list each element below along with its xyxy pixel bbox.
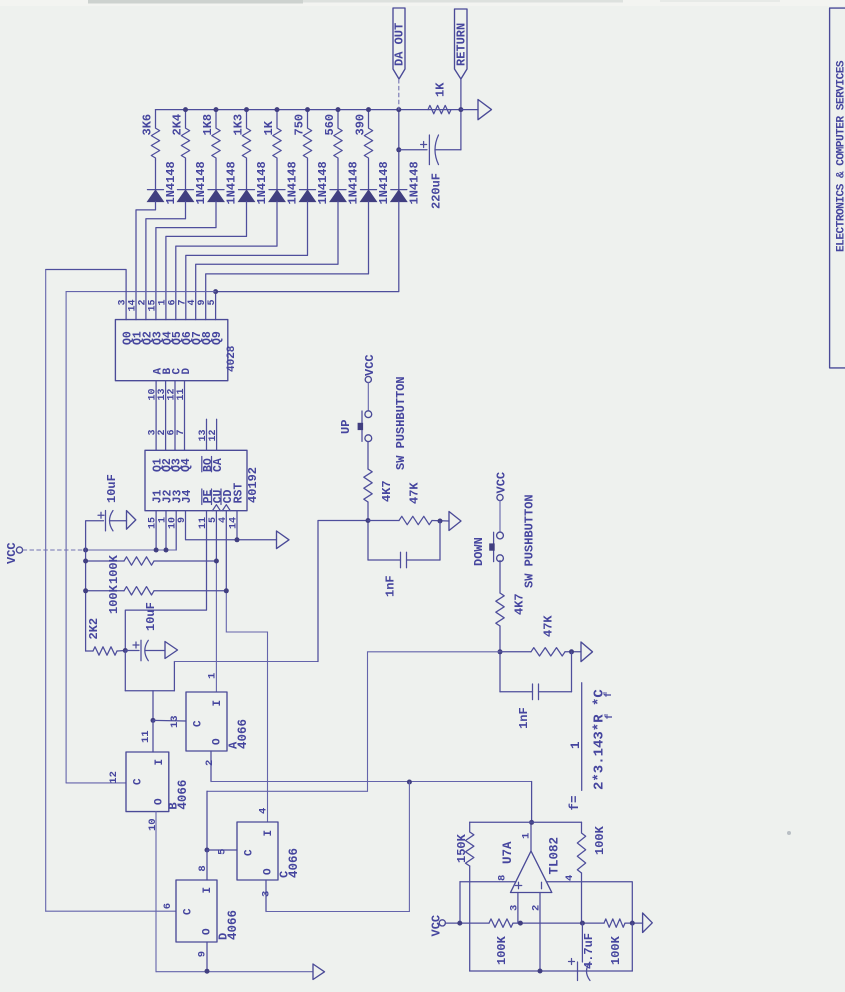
overline CU bbox=[211, 489, 213, 505]
svg-text:I: I bbox=[154, 759, 166, 766]
wire: VCC rail dotted bbox=[23, 549, 86, 551]
wire: DA OUT flag stem bbox=[398, 79, 400, 110]
wire: VCC rail bbox=[445, 922, 489, 924]
wire: to 4066 B pin 11 / A ctl bbox=[152, 691, 154, 721]
wire: 2K2 to node bbox=[117, 650, 125, 653]
svg-text:VCC: VCC bbox=[495, 472, 509, 494]
svg-text:DOWN: DOWN bbox=[472, 537, 486, 566]
wire: pin 4 supply to ground rail bbox=[546, 882, 632, 923]
svg-text:1N4148: 1N4148 bbox=[194, 161, 208, 204]
svg-text:1nF: 1nF bbox=[384, 575, 398, 597]
svg-text:40192: 40192 bbox=[246, 467, 260, 503]
ground (10uF) bbox=[127, 511, 136, 530]
junction bbox=[336, 107, 341, 112]
svg-text:100K: 100K bbox=[495, 935, 509, 965]
svg-text:C: C bbox=[133, 778, 145, 785]
analog switch 4066 D bbox=[176, 880, 217, 942]
svg-text:U7A: U7A bbox=[501, 841, 515, 864]
clock chevron CU bbox=[212, 505, 220, 511]
pushbutton SW UP bbox=[365, 411, 372, 418]
wire bbox=[500, 651, 531, 653]
wire: CD down to 4066 C input bbox=[226, 591, 267, 822]
wire: 4028 pin 3 (Q0) to left bus bbox=[46, 270, 126, 320]
wire: 4028 C to 40192 bbox=[174, 381, 176, 451]
wire: rail bbox=[513, 922, 604, 924]
wire: J3 to VCC rail bbox=[175, 511, 177, 550]
svg-text:1N4148: 1N4148 bbox=[316, 161, 330, 204]
wire: 4028 D to 40192 bbox=[184, 381, 186, 451]
svg-text:1: 1 bbox=[207, 673, 219, 679]
svg-text:1N4148: 1N4148 bbox=[255, 161, 269, 204]
wire: 1K to diode bbox=[276, 160, 278, 190]
svg-text:I: I bbox=[212, 700, 224, 707]
svg-text:I: I bbox=[202, 887, 214, 894]
svg-text:8: 8 bbox=[197, 865, 209, 871]
junction: -in on bottom rail bbox=[538, 969, 543, 974]
diode 1N4148 (column 8) bbox=[361, 189, 377, 191]
svg-text:C: C bbox=[244, 849, 256, 856]
junction bbox=[214, 107, 219, 112]
wire: diode 7 to 4028 pin 4 bbox=[196, 202, 338, 320]
capacitor 1nF (DOWN) bbox=[500, 691, 533, 693]
wire: diode 2 to 4028 pin 2 bbox=[146, 202, 186, 320]
wire: 4028 A to 40192 bbox=[155, 381, 157, 451]
terminal flag RETURN bbox=[455, 9, 468, 79]
svg-text:O: O bbox=[212, 738, 224, 745]
svg-text:DA OUT: DA OUT bbox=[393, 23, 407, 66]
svg-text:SW PUSHBUTTON: SW PUSHBUTTON bbox=[394, 376, 408, 470]
resistor 2K4 bbox=[181, 110, 189, 160]
diode 1N4148 (column 1) bbox=[148, 189, 164, 191]
svg-text:10uF: 10uF bbox=[105, 474, 119, 503]
svg-text:f: f bbox=[603, 691, 615, 697]
wire: 100K to CU bbox=[154, 560, 216, 562]
resistor 390 bbox=[364, 110, 372, 160]
wire: 1nF up to ground net bbox=[439, 521, 441, 560]
wire: 390 to diode bbox=[368, 160, 370, 190]
wire: 3K6 to diode bbox=[155, 160, 157, 190]
junction bbox=[305, 107, 310, 112]
wire: jog up bbox=[173, 662, 175, 691]
junction: A out / C out bbox=[407, 780, 412, 785]
title block frame bbox=[830, 8, 845, 368]
svg-text:4028: 4028 bbox=[226, 345, 238, 372]
junction: +in node bbox=[518, 921, 523, 926]
diode 1N4148 (column 2) bbox=[178, 189, 194, 191]
svg-text:750: 750 bbox=[293, 114, 307, 136]
wire: node to jog bbox=[125, 690, 174, 692]
svg-text:Q9: Q9 bbox=[211, 331, 224, 345]
junction bbox=[438, 519, 443, 524]
wire: CU upper bbox=[215, 511, 217, 561]
wire: 10uF to ground bbox=[146, 650, 166, 652]
wire: DA node to 220uF bbox=[399, 149, 427, 151]
wire: 4K7 down through junction bbox=[367, 502, 369, 560]
wire: D output pin 9 bbox=[206, 942, 208, 971]
pushbutton SW DOWN bbox=[497, 532, 504, 539]
junction bbox=[630, 921, 635, 926]
wire: right side down bbox=[631, 923, 633, 971]
svg-text:SW PUSHBUTTON: SW PUSHBUTTON bbox=[523, 494, 537, 588]
wire: VCC to switch DOWN bbox=[499, 501, 501, 532]
junction: CU net bbox=[214, 559, 219, 564]
polarity + of 10uF bbox=[98, 512, 104, 518]
wire: left bus to 4066 D control pin 6 bbox=[46, 910, 176, 912]
wire: DA diode to 4028 pin 5 bbox=[216, 202, 399, 320]
wire: output node rail bbox=[470, 821, 582, 823]
svg-text:100K: 100K bbox=[609, 935, 623, 965]
junction bbox=[83, 588, 88, 593]
wire: 750 to diode bbox=[307, 160, 309, 190]
resistor 100K (feedback) bbox=[577, 822, 585, 873]
wire: PE to RC node bbox=[125, 511, 206, 651]
svg-text:1N4148: 1N4148 bbox=[225, 161, 239, 204]
wire: DAC summing bus bbox=[156, 109, 461, 111]
svg-text:1K: 1K bbox=[434, 82, 448, 97]
junction bbox=[366, 107, 371, 112]
svg-text:D: D bbox=[181, 368, 193, 375]
diode 1N4148 (column 4) bbox=[239, 189, 255, 191]
junction bbox=[83, 559, 88, 564]
resistor 1K bbox=[428, 105, 451, 113]
wire: op-amp output pin 1 bbox=[530, 822, 532, 851]
wire: VCC rail bbox=[86, 549, 177, 551]
junction: J4-RST bbox=[235, 537, 240, 542]
wire: left bus to 4066 B control pin 12 bbox=[66, 782, 126, 784]
wire: VCC to 10uF bbox=[86, 521, 104, 550]
resistor 1K bbox=[273, 110, 281, 160]
resistor 150K bbox=[466, 822, 474, 866]
capacitor 1nF (UP) bbox=[368, 559, 401, 561]
resistor 560 bbox=[334, 110, 342, 160]
wire: DOWN signal to 4066 D/C bbox=[207, 652, 500, 792]
svg-text:220uF: 220uF bbox=[429, 173, 443, 209]
svg-text:VCC: VCC bbox=[363, 354, 377, 376]
svg-text:4066: 4066 bbox=[236, 719, 250, 749]
wire: rail to ground bbox=[625, 922, 643, 924]
svg-text:1N4148: 1N4148 bbox=[377, 161, 391, 204]
junction: 220uF node bbox=[396, 147, 401, 152]
svg-text:4K7: 4K7 bbox=[513, 593, 527, 615]
resistor 100K (CU pull-up) bbox=[124, 557, 154, 565]
wire: C out right bbox=[266, 911, 409, 913]
wire: 100K to CD bbox=[154, 590, 226, 592]
svg-text:4066: 4066 bbox=[226, 910, 240, 940]
wire: switch to 4K7 bbox=[367, 442, 369, 469]
wire: BO stub pin 13 bbox=[206, 419, 208, 450]
op-amp + input mark bbox=[515, 882, 521, 888]
svg-text:9: 9 bbox=[177, 517, 188, 523]
wire: to 4066 A control pin 13 bbox=[153, 719, 186, 722]
wire: B output pin 10 down bbox=[155, 812, 157, 972]
wire: diode 4 to 4028 pin 1 bbox=[166, 202, 247, 320]
resistor 2K2 bbox=[93, 647, 117, 655]
diode 1N4148 (column 5) bbox=[269, 189, 285, 191]
wire: down to op-amp output node bbox=[531, 782, 533, 823]
wire: VCC to switch UP bbox=[367, 383, 369, 411]
polarity + of 10uF bbox=[133, 642, 139, 648]
capacitor 10uF (PE timing) bbox=[140, 640, 142, 660]
wire: A output pin 2 bbox=[210, 751, 212, 782]
ground (output return) bbox=[478, 100, 492, 120]
wire: to 4066 D input pin 8 bbox=[206, 850, 208, 880]
svg-text:150K: 150K bbox=[455, 833, 469, 863]
resistor 47K (UP) bbox=[399, 516, 432, 524]
wire: diode 6 to 4028 pin 7 bbox=[186, 202, 308, 320]
ground (DOWN) bbox=[581, 642, 593, 662]
wire: Q9 to left bus bbox=[66, 291, 216, 293]
junction bbox=[275, 107, 280, 112]
wire: CO stub pin 12 bbox=[216, 419, 218, 450]
junction bbox=[244, 107, 249, 112]
polarity + of 220uF bbox=[421, 142, 427, 148]
svg-text:2K4: 2K4 bbox=[171, 114, 185, 136]
wire: C output pin 3 bbox=[265, 880, 267, 912]
wire: 560 to diode bbox=[337, 160, 339, 190]
resistor 4K7 (DOWN) bbox=[496, 593, 504, 626]
resistor 3K6 bbox=[151, 110, 159, 160]
op-amp - input mark bbox=[541, 882, 543, 888]
svg-text:8: 8 bbox=[497, 875, 509, 881]
wire: diode 8 to 4028 pin 9 bbox=[206, 202, 369, 320]
svg-text:UP: UP bbox=[339, 420, 353, 434]
IC 4028 BCD-to-decimal decoder body bbox=[115, 320, 227, 381]
svg-text:100K: 100K bbox=[107, 584, 121, 614]
svg-text:1N4148: 1N4148 bbox=[164, 161, 178, 204]
ground (J4/RST) bbox=[277, 531, 290, 549]
diode 1N4148 (DA OUT column) bbox=[391, 189, 407, 191]
svg-text:ELECTRONICS & COMPUTER SERVICE: ELECTRONICS & COMPUTER SERVICES bbox=[836, 60, 845, 252]
capacitor 4.7uF bbox=[577, 962, 579, 981]
svg-text:1: 1 bbox=[569, 741, 583, 749]
clock chevron CD bbox=[222, 505, 230, 511]
svg-text:1N4148: 1N4148 bbox=[286, 161, 300, 204]
wire: UP signal line bbox=[174, 661, 318, 663]
junction: CD net bbox=[224, 588, 229, 593]
svg-text:4K7: 4K7 bbox=[380, 480, 394, 502]
svg-text:4: 4 bbox=[258, 808, 270, 814]
resistor 100K (bias upper) bbox=[489, 919, 513, 927]
wire: 2K4 to diode bbox=[185, 160, 187, 190]
wire: 1nF up to ground net bbox=[571, 652, 573, 692]
svg-text:O: O bbox=[202, 928, 214, 935]
IC 40192 up/down counter body bbox=[145, 450, 247, 510]
junction bbox=[457, 921, 462, 926]
terminal VCC (left) bbox=[16, 547, 22, 553]
svg-text:6: 6 bbox=[162, 903, 174, 909]
wire: bottom rail to ground bbox=[156, 971, 313, 973]
wire: to 100K bbox=[86, 560, 124, 562]
svg-text:VCC: VCC bbox=[429, 915, 443, 937]
polarity + of 4.7uF bbox=[569, 959, 575, 965]
junction: Q9 net bbox=[213, 289, 218, 294]
wire: left bus (Q0) down bbox=[45, 270, 47, 912]
resistor 750 bbox=[303, 110, 311, 160]
wire: A out to op-amp node bbox=[211, 781, 532, 783]
svg-text:11: 11 bbox=[176, 389, 187, 401]
wire: UP debounce node to signal line bbox=[318, 521, 368, 662]
junction: RETURN node bbox=[458, 107, 463, 112]
svg-text:O: O bbox=[153, 798, 165, 805]
svg-text:12: 12 bbox=[108, 771, 120, 784]
svg-text:f: f bbox=[604, 713, 616, 719]
wire: node to 10uF bbox=[125, 650, 139, 652]
fraction bar bbox=[581, 683, 583, 791]
svg-text:13: 13 bbox=[169, 715, 181, 728]
wire: 100K to VCC rail node bbox=[581, 873, 583, 923]
svg-text:9: 9 bbox=[197, 951, 209, 957]
svg-text:10uF: 10uF bbox=[144, 602, 158, 631]
op-amp U7A TL082 bbox=[511, 851, 552, 893]
svg-text:12: 12 bbox=[208, 430, 219, 442]
svg-text:390: 390 bbox=[354, 114, 368, 136]
junction: D out on bottom rail bbox=[205, 969, 210, 974]
wire: 4028 B to 40192 bbox=[165, 381, 167, 451]
wire: to 4066 C control pin 5 bbox=[207, 849, 237, 851]
junction J2 bbox=[164, 548, 169, 553]
wire: CD upper bbox=[225, 511, 227, 591]
svg-text:14: 14 bbox=[229, 517, 240, 529]
wire: to 4066 B input pin 11 bbox=[152, 720, 154, 752]
junction: B11-A13 bbox=[151, 718, 156, 723]
terminal VCC (UP) bbox=[365, 376, 371, 382]
wire: to 2K2 bbox=[86, 650, 93, 652]
diode 1N4148 (column 7) bbox=[330, 189, 346, 191]
wire: C out up to A out junction bbox=[408, 782, 410, 912]
junction: UP debounce node bbox=[366, 518, 371, 523]
terminal flag DA OUT bbox=[393, 8, 405, 79]
wire: pin 3 (+) input bbox=[517, 893, 519, 924]
analog switch 4066 B bbox=[126, 752, 169, 812]
resistor 1K3 bbox=[242, 110, 250, 160]
junction: PE RC node bbox=[123, 648, 128, 653]
terminal VCC (op-amp) bbox=[439, 920, 445, 926]
wire: diode 1 to 4028 pin 14 bbox=[136, 202, 156, 320]
wire: to ground arrow bbox=[461, 109, 478, 111]
svg-text:1N4148: 1N4148 bbox=[407, 161, 421, 204]
svg-text:2*3.143*R *C: 2*3.143*R *C bbox=[592, 689, 608, 790]
junction: DOWN debounce node bbox=[498, 649, 503, 654]
junction: D8-C5 bbox=[205, 848, 210, 853]
svg-text:2: 2 bbox=[531, 905, 543, 911]
svg-text:47K: 47K bbox=[408, 482, 422, 504]
overline BO bbox=[201, 457, 203, 472]
terminal VCC (DOWN) bbox=[497, 494, 503, 500]
svg-text:2: 2 bbox=[204, 760, 216, 766]
svg-text:RST: RST bbox=[233, 483, 246, 504]
wire: CU down to 4066 A input bbox=[215, 561, 217, 692]
svg-text:2K2: 2K2 bbox=[87, 618, 101, 640]
svg-text:O: O bbox=[263, 868, 275, 875]
wire: 1K3 to diode bbox=[246, 160, 248, 190]
svg-text:J4: J4 bbox=[181, 489, 194, 503]
svg-text:4: 4 bbox=[564, 875, 576, 881]
svg-text:3: 3 bbox=[261, 891, 273, 897]
capacitor 10uF (VCC decoupling) bbox=[105, 511, 107, 531]
wire: pin 2 (-) input down bbox=[539, 893, 541, 972]
wire: diode 3 to 4028 pin 15 bbox=[156, 202, 216, 320]
svg-text:10: 10 bbox=[147, 818, 159, 831]
junction: op-amp output node bbox=[529, 820, 534, 825]
resistor 100K (bias lower) bbox=[604, 919, 625, 927]
wire: feedback node to 4.7uF bbox=[581, 923, 583, 962]
svg-text:5: 5 bbox=[216, 849, 228, 855]
svg-text:1N4148: 1N4148 bbox=[347, 161, 361, 204]
wire: RST pin bbox=[236, 511, 238, 540]
wire: to 100K bbox=[86, 590, 124, 592]
diode 1N4148 (column 6) bbox=[300, 189, 316, 191]
wire: 47K to ground bbox=[432, 520, 449, 523]
svg-text:RETURN: RETURN bbox=[455, 23, 469, 66]
diode 1N4148 (column 3) bbox=[208, 189, 224, 191]
svg-text:C: C bbox=[183, 908, 195, 915]
junction bbox=[569, 649, 574, 654]
svg-text:4.7uF: 4.7uF bbox=[582, 933, 596, 969]
scan speck (noise) bbox=[787, 831, 791, 835]
ground (UP) bbox=[449, 512, 461, 531]
wire: node down bbox=[124, 651, 126, 691]
svg-text:1K: 1K bbox=[262, 120, 276, 135]
svg-text:100K: 100K bbox=[107, 554, 121, 584]
wire: DA OUT column bbox=[398, 110, 400, 190]
svg-text:47K: 47K bbox=[542, 615, 556, 637]
ground (10uF PE) bbox=[165, 642, 178, 659]
svg-text:I: I bbox=[263, 830, 275, 837]
junction: DA OUT node on bus bbox=[396, 107, 401, 112]
svg-text:CA: CA bbox=[212, 458, 225, 472]
wire: J2 to VCC rail bbox=[165, 511, 167, 550]
wire: switch to 4K7 bbox=[499, 561, 501, 594]
resistor 1K8 bbox=[212, 110, 220, 160]
ground (op-amp rail) bbox=[643, 913, 653, 933]
analog switch 4066 C bbox=[237, 822, 278, 880]
wire: left bus (Q9) down bbox=[65, 292, 67, 783]
overline CA bbox=[211, 457, 213, 472]
svg-text:7: 7 bbox=[176, 430, 187, 436]
wire: down to D input bbox=[206, 791, 208, 850]
svg-text:4: 4 bbox=[218, 517, 229, 523]
wire: bottom loop rail bbox=[470, 970, 633, 972]
junction bbox=[183, 107, 188, 112]
svg-text:1nF: 1nF bbox=[517, 707, 531, 729]
wire: pin 8 to VCC rail bbox=[459, 882, 461, 923]
svg-text:3K6: 3K6 bbox=[141, 114, 155, 136]
junction J1 bbox=[154, 548, 159, 553]
capacitor 220uF bbox=[428, 135, 430, 165]
svg-text:4066: 4066 bbox=[287, 848, 301, 878]
wire: pin 8 supply bbox=[460, 881, 516, 883]
ground (bottom) bbox=[313, 964, 325, 980]
svg-text:f=: f= bbox=[568, 795, 582, 810]
resistor 100K (CD pull-up) bbox=[124, 587, 154, 595]
wire: 4K7 down through junction bbox=[499, 626, 501, 692]
svg-text:1K3: 1K3 bbox=[232, 114, 246, 136]
wire: 1K8 to diode bbox=[215, 160, 217, 190]
svg-text:11: 11 bbox=[140, 730, 152, 743]
wire: J1 to VCC rail bbox=[155, 511, 157, 550]
svg-text:4066: 4066 bbox=[176, 780, 190, 810]
svg-text:Q4: Q4 bbox=[180, 458, 193, 472]
wire: 150K to bottom rail bbox=[469, 866, 471, 971]
wire: 220uF to RETURN bbox=[435, 149, 461, 151]
svg-text:5: 5 bbox=[207, 300, 218, 306]
wire: 47K to ground bbox=[565, 651, 581, 653]
overline PE bbox=[201, 489, 203, 505]
wire: 10uF to ground bbox=[110, 520, 127, 522]
junction: feedback node bbox=[580, 921, 585, 926]
wire: diode 5 to 4028 pin 6 bbox=[176, 202, 277, 320]
wire: VCC branch down bbox=[85, 550, 87, 651]
